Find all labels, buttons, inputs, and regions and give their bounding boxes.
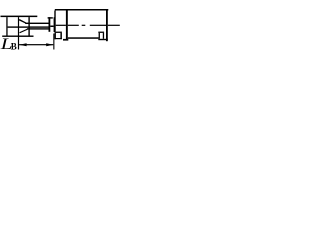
svg-text:B: B [11, 42, 17, 52]
